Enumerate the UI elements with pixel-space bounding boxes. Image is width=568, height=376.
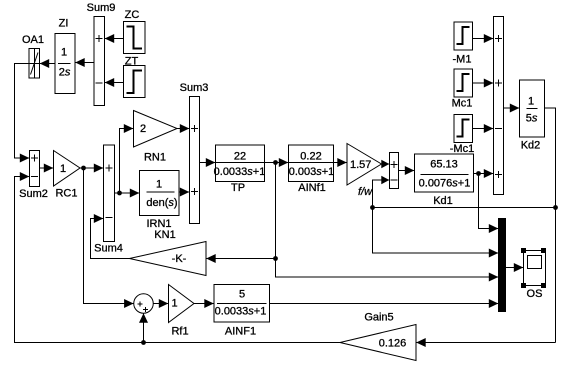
gain f/w (347, 144, 382, 199)
svg-text:KN1: KN1 (154, 229, 175, 241)
wire IRN1 to Sum3 plus (179, 188, 190, 197)
svg-text:1.57: 1.57 (350, 159, 371, 171)
gain RC1 (54, 151, 81, 200)
junction on bottom feedback (141, 340, 146, 345)
step -Mc1 (450, 115, 474, 156)
svg-text:1: 1 (171, 298, 177, 310)
wire Sum2 to RC1 (40, 164, 54, 173)
svg-text:5s: 5s (526, 113, 538, 125)
svg-text:AINF1: AINF1 (225, 326, 256, 338)
wire ZC to Sum9 (105, 34, 124, 43)
wire branch to IRN1 (120, 189, 140, 198)
svg-text:1: 1 (60, 163, 66, 175)
svg-text:0.22: 0.22 (300, 151, 321, 163)
wire Sum9 to ZI (75, 58, 94, 67)
transfer ZI (55, 18, 75, 94)
wire TP branch down (275, 163, 277, 259)
transfer AINF1 (214, 285, 270, 338)
wire Sum4 output branch (115, 124, 134, 193)
wire AINF1 to mux input 4 (270, 299, 499, 308)
wire ZT to Sum9 (105, 78, 124, 87)
svg-text:-M1: -M1 (453, 54, 472, 66)
step ZC (124, 9, 146, 54)
svg-text:RN1: RN1 (144, 152, 166, 164)
transfer TP (214, 145, 266, 194)
wire mux to scope OS (506, 263, 524, 272)
svg-text:1: 1 (528, 96, 534, 108)
wire circle sum to Rf1 (154, 299, 169, 308)
wire riser to circle sum (139, 313, 148, 342)
junction on Kd2 feedback (553, 205, 558, 210)
transfer IRN1 (140, 171, 180, 231)
wire Kd2 feedback down (545, 108, 556, 343)
svg-text:22: 22 (234, 151, 246, 163)
wire feedback to mux input 2 (373, 208, 499, 258)
wire ZI to OA1 (40, 59, 56, 68)
wire feedback to Gain5 (416, 338, 556, 347)
svg-text:Sum3: Sum3 (180, 82, 209, 94)
wire AINf1 to gain f/w (334, 158, 348, 167)
svg-text:Mc1: Mc1 (452, 98, 473, 110)
transfer Kd2 (520, 80, 545, 152)
svg-text:TP: TP (231, 182, 245, 194)
gain Gain5 (340, 312, 416, 361)
saturation OA1 (22, 34, 44, 78)
step Mc1 (452, 69, 473, 110)
svg-text:ZI: ZI (59, 18, 69, 30)
wire Rf1 to AINF1 (194, 299, 214, 308)
svg-text:OA1: OA1 (22, 34, 44, 46)
svg-text:Sum4: Sum4 (94, 243, 123, 255)
wire RN1 to Sum3 plus (177, 124, 190, 133)
transfer AINf1 (289, 145, 335, 194)
wire -K- to Sum4 minus (91, 214, 130, 259)
scope OS (521, 248, 546, 300)
gain Rf1 (169, 285, 195, 338)
svg-text:ZC: ZC (125, 9, 140, 21)
svg-text:0.126: 0.126 (379, 338, 407, 350)
gain RN1 (134, 111, 178, 164)
svg-text:den(s): den(s) (146, 197, 177, 209)
wire feedback left run (373, 207, 556, 209)
junction at RC1 output (81, 166, 86, 171)
svg-text:0.0033s+1: 0.0033s+1 (215, 306, 267, 318)
wire feedback to sum minus (373, 176, 390, 208)
svg-text:-K-: -K- (172, 253, 187, 265)
mux Mux1 (499, 219, 506, 312)
svg-text:Kd2: Kd2 (521, 140, 541, 152)
wire Kd1 to sum M (474, 169, 494, 178)
wire Kd1 branch to mux input 1 (479, 174, 499, 234)
wire -Mc1 to sum M (473, 124, 494, 133)
wire Mc1 to sum M (473, 79, 494, 88)
wire branch to gain -K- (206, 254, 276, 263)
junction at Kd1 output (476, 171, 481, 176)
sum Sum8 (390, 153, 399, 189)
step ZT (124, 56, 146, 98)
sum Sum2 (19, 151, 48, 201)
svg-text:2: 2 (140, 123, 146, 135)
sum Sum4 (94, 145, 123, 255)
wire TP to AINf1 (265, 158, 289, 167)
wire f/w to sum (381, 160, 389, 168)
svg-text:f/w: f/w (358, 186, 373, 198)
wire sum to Kd1 (399, 166, 415, 175)
wire RC1 to Sum4 plus (80, 164, 104, 173)
svg-text:0.003s+1: 0.003s+1 (289, 166, 335, 178)
wire Gain5 to Sum2 minus (15, 172, 341, 343)
junction at Sum4 output branch (117, 191, 122, 196)
junction at TP output (273, 160, 278, 165)
sum Sum9 (87, 2, 116, 106)
sum Sum3 (180, 82, 209, 224)
svg-text:5: 5 (239, 289, 245, 301)
svg-text:AINf1: AINf1 (298, 182, 326, 194)
svg-text:Gain5: Gain5 (364, 312, 393, 324)
sum M (494, 17, 504, 195)
wire OA1 to Sum2 plus (15, 64, 30, 163)
svg-text:1: 1 (156, 179, 162, 191)
wire -M1 to sum M (473, 34, 494, 43)
svg-text:RC1: RC1 (55, 188, 77, 200)
svg-text:Rf1: Rf1 (171, 326, 188, 338)
wire RC1 branch down to circle sum (84, 168, 134, 308)
svg-text:Sum2: Sum2 (19, 188, 48, 200)
junction on feedback left run (370, 205, 375, 210)
transfer Kd1 (415, 154, 474, 207)
junction on TP branch (273, 256, 278, 261)
svg-text:0.0033s+1: 0.0033s+1 (214, 166, 266, 178)
step -M1 (453, 22, 473, 66)
svg-text:-Mc1: -Mc1 (450, 143, 474, 155)
wire Sum3 to TP (200, 158, 216, 167)
svg-text:65.13: 65.13 (430, 159, 458, 171)
svg-text:OS: OS (527, 288, 543, 300)
wire sum M to Kd2 (504, 104, 520, 113)
svg-text:2s: 2s (59, 67, 71, 79)
sum circle Sum1 (134, 294, 154, 314)
svg-text:Kd1: Kd1 (433, 195, 453, 207)
svg-text:Sum9: Sum9 (87, 2, 116, 14)
wire branch to mux input 3 (276, 259, 499, 282)
gain KN1 (-K-) (130, 229, 207, 276)
svg-text:0.0076s+1: 0.0076s+1 (419, 178, 471, 190)
svg-text:1: 1 (61, 47, 67, 59)
